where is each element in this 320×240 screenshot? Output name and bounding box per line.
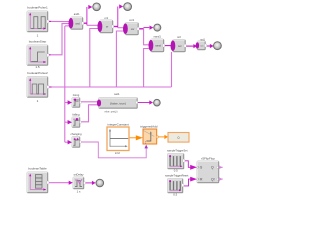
source booleanTable xyxy=(27,167,49,193)
svg-text:Q!: Q! xyxy=(211,178,215,182)
wire sampleTriggerSet.y to rSFlipFlop.S xyxy=(184,161,197,170)
svg-text:{false, true}: {false, true} xyxy=(110,101,126,105)
svg-text:changing: changing xyxy=(71,132,82,136)
svg-text:k=2: k=2 xyxy=(115,151,120,155)
svg-text:1.5: 1.5 xyxy=(35,65,40,69)
svg-text:0: 0 xyxy=(178,136,180,140)
wire falling.y to set1.u2 xyxy=(80,105,98,122)
sampleTriggerSet xyxy=(167,148,188,172)
showValue5 sphere xyxy=(153,99,161,107)
wire changing.y to triggeredAdd.trigger xyxy=(80,142,148,158)
gate not1 xyxy=(196,38,207,50)
svg-text:nand: nand xyxy=(155,44,161,48)
gate and1 xyxy=(69,12,84,29)
showValue6 sphere xyxy=(96,179,105,188)
edge rising xyxy=(72,93,81,107)
showValue3 sphere xyxy=(153,24,161,32)
sampleTriggerReset xyxy=(165,173,189,196)
wire onDelay.y to showValue6 xyxy=(84,181,95,185)
svg-text:1 s: 1 s xyxy=(77,189,81,193)
svg-text:sampleTriggerReset: sampleTriggerReset xyxy=(165,173,189,177)
svg-text:integerConstant: integerConstant xyxy=(108,122,129,126)
wire rSFlipFlop.Q! stub xyxy=(219,178,223,181)
wire rising.y to set1.u1 xyxy=(80,101,98,103)
gate xor1 xyxy=(123,18,139,35)
wire nand1.y to or2.u1 xyxy=(164,45,172,47)
wire integerConstant.y to triggeredAdd.u xyxy=(129,135,143,140)
source booleanPulse1 xyxy=(27,5,49,37)
svg-text:and: and xyxy=(75,21,80,25)
wire xor1.y to showValue3 and nand1.u1 xyxy=(139,26,154,45)
gate or1 xyxy=(98,16,114,33)
svg-text:xor1: xor1 xyxy=(129,18,135,22)
svg-text:or1: or1 xyxy=(104,16,108,20)
svg-text:nand1: nand1 xyxy=(154,35,162,39)
svg-text:booleanStep: booleanStep xyxy=(29,39,47,43)
svg-text:triggeredAdd: triggeredAdd xyxy=(140,125,158,129)
svg-text:booleanPulse2: booleanPulse2 xyxy=(27,71,48,75)
svg-text:1: 1 xyxy=(37,99,39,103)
svg-text:booleanPulse1: booleanPulse1 xyxy=(27,5,48,9)
wire bus to falling.u xyxy=(65,120,72,124)
wire triggeredAdd.y to showValue1 xyxy=(157,135,168,139)
wire bus to changing.u xyxy=(65,140,72,144)
svg-text:sampleTriggerSet: sampleTriggerSet xyxy=(167,148,188,152)
wire rSFlipFlop.Q stub xyxy=(219,166,223,169)
showValue sphere xyxy=(92,3,101,12)
wire or1.y to showValue2 and xor1.u1 xyxy=(113,4,125,27)
edge falling xyxy=(72,113,81,128)
rSFlipFlop xyxy=(197,156,219,183)
svg-text:Q: Q xyxy=(211,166,214,170)
gate nand1 xyxy=(149,35,165,52)
wire booleanPulse1.y to and1.u1 xyxy=(48,20,70,22)
svg-text:or2: or2 xyxy=(177,35,181,39)
svg-text:not1: not1 xyxy=(200,38,205,41)
triggeredAdd xyxy=(140,125,158,144)
wire bus to rising.u xyxy=(65,100,72,104)
showValue4 sphere xyxy=(213,41,222,50)
edge changing xyxy=(71,132,82,147)
wire set1.y to showValue5 xyxy=(138,100,154,104)
svg-text:not: not xyxy=(200,45,203,48)
showValue2 sphere xyxy=(123,2,132,11)
wire and1.y to showValue and or1.u1 xyxy=(83,5,99,25)
onDelay xyxy=(73,173,86,194)
showValue1 integer display xyxy=(168,133,189,143)
wire booleanTable.y to onDelay.u xyxy=(48,181,73,185)
gate or2 (nor) xyxy=(171,35,187,52)
svg-text:falling: falling xyxy=(72,113,80,117)
svg-text:1: 1 xyxy=(37,34,39,38)
wire booleanPulse2.y bus xyxy=(48,26,172,142)
integerConstant xyxy=(107,122,129,155)
svg-text:0.5: 0.5 xyxy=(173,193,177,197)
svg-text:rising: rising xyxy=(73,93,80,97)
source booleanStep xyxy=(27,39,49,69)
svg-text:nor: nor xyxy=(178,44,182,48)
wire not1.y to showValue4 xyxy=(206,44,214,48)
svg-text:onDelay: onDelay xyxy=(74,173,85,177)
svg-text:0.5: 0.5 xyxy=(174,169,178,173)
svg-text:set1: set1 xyxy=(114,92,120,96)
svg-text:rSFlipFlop: rSFlipFlop xyxy=(201,156,215,160)
svg-text:or: or xyxy=(106,25,108,29)
source booleanPulse2 xyxy=(27,71,49,103)
svg-text:xor: xor xyxy=(131,27,135,31)
svg-text:else: pre(y): else: pre(y) xyxy=(105,109,118,113)
svg-text:and1: and1 xyxy=(74,12,80,16)
multiSwitch set1 xyxy=(97,92,138,113)
wire booleanStep.y to and1.u2 xyxy=(48,24,70,55)
wire or2.y to not1 xyxy=(186,44,198,48)
svg-text:booleanTable: booleanTable xyxy=(28,167,47,171)
wire sampleTriggerReset.y to rSFlipFlop.R xyxy=(183,177,197,186)
